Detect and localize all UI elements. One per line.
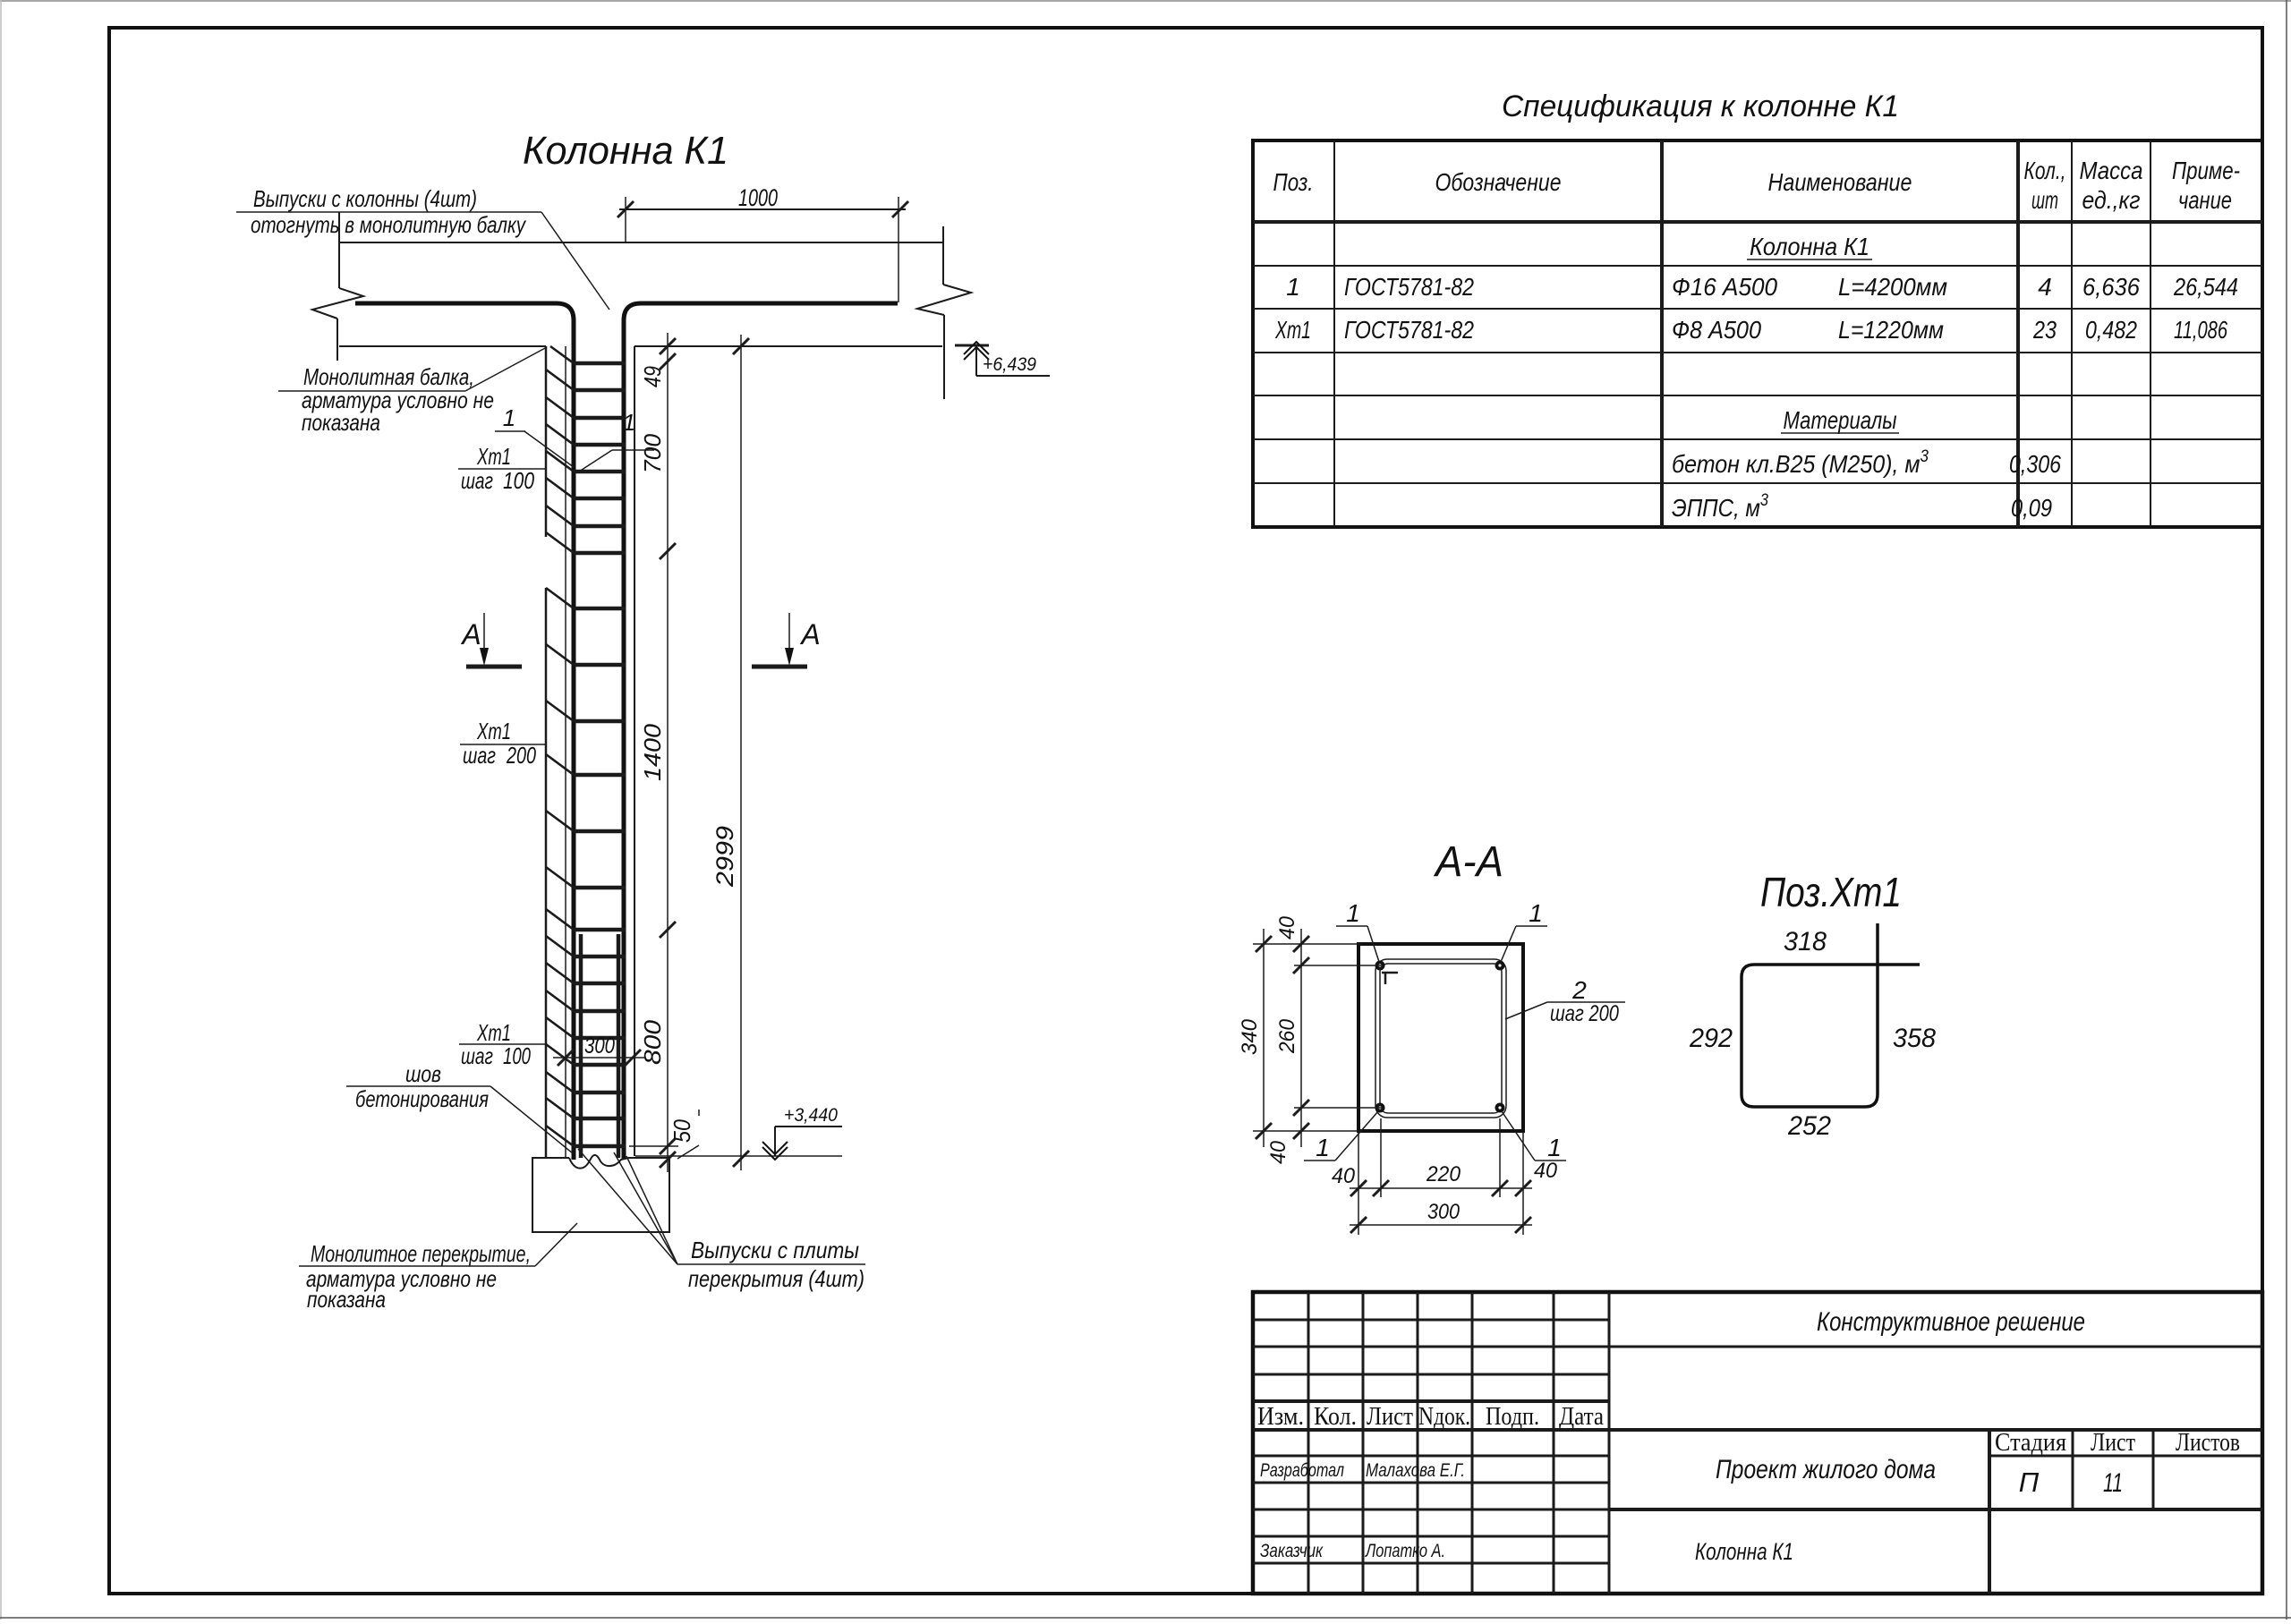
svg-text:шт: шт [2031,186,2058,214]
svg-text:бетон кл.В25 (М250), м3: бетон кл.В25 (М250), м3 [1672,447,1929,478]
spec row Хт1: Ф8 А500 [1274,316,2227,344]
section A-A column outline [1358,944,1523,1131]
svg-text:L=1220мм: L=1220мм [1838,316,1944,344]
svg-text:Материалы: Материалы [1784,406,1897,434]
beam rebar right (bent column outlet bar) [624,303,898,1160]
level mark +3,440 [635,1105,842,1160]
column left edge (hatch band edge) upper segment [545,346,548,537]
hatch strokes on column left band [546,346,574,1146]
svg-text:1400: 1400 [639,723,666,781]
svg-text:отогнуть в монолитную балку: отогнуть в монолитную балку [251,211,527,238]
svg-text:показана: показана [302,409,380,436]
svg-text:Стадия: Стадия [1995,1429,2066,1457]
svg-text:Масса: Масса [2080,157,2143,184]
svg-text:Лист: Лист [2091,1429,2135,1457]
svg-text:40: 40 [1332,1164,1356,1188]
section A-A position labels 1 [1304,899,1566,1161]
svg-text:Выпуски с колонны (4шт): Выпуски с колонны (4шт) [253,185,477,212]
beam bottom edge right segment [634,345,942,347]
svg-text:0,306: 0,306 [2009,450,2061,478]
svg-text:Колонна К1: Колонна К1 [1750,233,1869,260]
vertical dimension chain 49 700 1400 800 50 [660,333,676,1172]
section A-A stirrup hook [1382,973,1398,984]
svg-text:А-А: А-А [1433,838,1503,886]
svg-text:Монолитное перекрытие,: Монолитное перекрытие, [311,1240,531,1267]
section A-A stirrup (double line) [1375,959,1506,1118]
Поз.Хт1 stirrup shape [1742,923,1920,1107]
svg-text:292: 292 [1689,1024,1733,1053]
construction joint wavy line (шов бетонирования) [569,1155,628,1169]
svg-text:40: 40 [1275,915,1299,940]
svg-text:Подп.: Подп. [1486,1403,1539,1431]
svg-text:Хт1: Хт1 [1274,316,1311,344]
label: Выпуски с плиты перекрытия (4шт) [578,1149,865,1292]
svg-text:Приме-: Приме- [2172,157,2240,184]
svg-text:318: 318 [1784,927,1827,957]
svg-text:Листов: Листов [2176,1429,2240,1457]
svg-text:ГОСТ5781-82: ГОСТ5781-82 [1344,316,1474,344]
svg-text:358: 358 [1893,1024,1936,1053]
spec row: Материалы [1781,406,1899,434]
svg-text:252: 252 [1787,1111,1831,1141]
beam right break line [917,226,971,399]
beam rebar left (bent column outlet bar) [355,303,574,1160]
label: Монолитная балка, арматура условно не показана [278,347,547,436]
svg-text:Колонна К1: Колонна К1 [523,129,728,173]
svg-text:+6,439: +6,439 [983,354,1036,375]
svg-text:23: 23 [2032,316,2057,344]
label: position 1 (mid right) [579,409,654,472]
stirrups Хт1 шаг 100 (bottom zone) [574,930,626,1146]
svg-text:200: 200 [506,742,536,769]
spec row: бетон [1672,447,2061,478]
title block header: Изм Кол Лист Nдок Подп Дата [1257,1403,1605,1431]
section A-A left dims 40/260/40 and 340 [1238,915,1383,1164]
title block grid [1253,1292,2262,1594]
svg-text:Nдок.: Nдок. [1418,1403,1470,1431]
beam bottom edge left segment [339,345,546,347]
svg-text:бетонирования: бетонирования [355,1085,489,1112]
svg-text:Хт1: Хт1 [476,718,511,744]
slab outlet bars (выпуски с плиты) [579,934,583,1158]
level mark +6,439 [955,342,1050,376]
svg-text:показана: показана [307,1286,386,1313]
svg-text:Поз.: Поз. [1273,168,1314,196]
section A-A label 2 шаг 200 [1505,976,1625,1026]
svg-text:1: 1 [1316,1134,1330,1161]
svg-text:2: 2 [1571,976,1587,1004]
svg-text:Ф16 А500: Ф16 А500 [1672,273,1777,301]
stirrups Хт1 шаг 200 (middle zone) [574,608,626,888]
spec row: ЭППС [1672,491,2052,522]
column right edge [634,346,635,1156]
svg-text:50: 50 [669,1119,695,1143]
svg-text:Колонна К1: Колонна К1 [1695,1538,1793,1565]
svg-text:1: 1 [1547,1134,1562,1161]
label: Хт1 шаг 200 (middle) [460,718,545,769]
svg-text:чание: чание [2178,186,2232,214]
svg-text:Выпуски с плиты: Выпуски с плиты [691,1237,859,1263]
label: Выпуски с колонны (4шт) отогнуть в монолитную балку [236,185,609,310]
spec row 1: Ф16 А500 [1286,273,2238,301]
svg-text:L=4200мм: L=4200мм [1838,273,1947,301]
svg-text:А: А [460,618,481,650]
svg-text:1: 1 [1346,899,1360,927]
svg-text:Поз.Хт1: Поз.Хт1 [1760,869,1902,915]
column left edge (hatch band edge) lower segment [545,588,548,1158]
label: Монолитное перекрытие, арматура условно не показана [299,1223,577,1313]
svg-text:Хт1: Хт1 [476,443,511,470]
label: Хт1 шаг 100 (bottom) [459,1019,545,1069]
svg-text:Малахова Е.Г.: Малахова Е.Г. [1366,1460,1465,1481]
svg-text:6,636: 6,636 [2082,273,2140,301]
svg-text:40: 40 [1534,1159,1558,1183]
svg-text:Лист: Лист [1367,1403,1413,1431]
svg-text:Ф8 А500: Ф8 А500 [1672,316,1761,344]
title block: П 11 [2019,1467,2123,1498]
svg-text:2999: 2999 [711,826,738,888]
svg-text:1: 1 [623,409,635,436]
dimension 1000 (beam) [617,184,908,302]
svg-text:ед.,кг: ед.,кг [2082,186,2141,214]
svg-text:Разработал: Разработал [1260,1460,1344,1481]
svg-text:26,544: 26,544 [2173,273,2238,301]
svg-text:Кол.: Кол. [1314,1403,1357,1431]
slab (монолитное перекрытие) outline [532,1158,669,1232]
svg-text:Лопатко А.: Лопатко А. [1364,1541,1445,1561]
svg-text:шаг: шаг [461,467,493,494]
svg-text:340: 340 [1238,1018,1262,1055]
svg-text:1: 1 [1286,273,1300,301]
svg-text:700: 700 [639,433,666,473]
svg-text:Наименование: Наименование [1768,168,1912,196]
svg-text:Кол.,: Кол., [2024,157,2066,184]
dim text 50 with leader [669,1110,699,1159]
dimension 300 (outlet bars lap) [553,1033,646,1066]
svg-text:11,086: 11,086 [2174,316,2227,344]
svg-text:Изм.: Изм. [1257,1403,1304,1431]
svg-text:ЭППС, м3: ЭППС, м3 [1672,491,1768,522]
svg-text:ГОСТ5781-82: ГОСТ5781-82 [1344,273,1474,301]
svg-text:11: 11 [2103,1468,2123,1498]
svg-text:100: 100 [503,467,534,494]
svg-text:Конструктивное решение: Конструктивное решение [1817,1307,2085,1337]
extension line for 50 dim [629,1145,678,1147]
label: шов бетонирования [346,1060,573,1153]
svg-text:шаг: шаг [463,742,496,769]
svg-text:шов: шов [405,1060,441,1087]
spec header texts [1273,157,2241,214]
label: position 1 (upper) [495,404,574,467]
section A-A rebar dots [1375,961,1505,1113]
beam top edge [339,242,943,243]
svg-text:260: 260 [1275,1018,1299,1054]
svg-text:П: П [2019,1467,2040,1498]
stirrups Хт1 шаг 100 (top zone) [574,363,626,553]
svg-text:300: 300 [584,1033,615,1059]
svg-text:4: 4 [2038,273,2052,301]
section mark A (right) [752,613,821,667]
svg-text:Проект жилого дома: Проект жилого дома [1716,1455,1936,1484]
spec table grid [1253,140,2262,527]
svg-text:шаг: шаг [461,1042,493,1069]
svg-text:220: 220 [1426,1162,1461,1186]
svg-text:1: 1 [1529,899,1543,927]
svg-text:1: 1 [503,404,515,431]
svg-text:А: А [799,618,820,650]
svg-text:100: 100 [503,1042,531,1069]
svg-text:Заказчик: Заказчик [1260,1541,1324,1561]
svg-text:0,482: 0,482 [2085,316,2137,344]
title block: Заказчик Лопатко А. [1260,1541,1445,1561]
svg-text:+3,440: +3,440 [784,1105,838,1126]
spec row: Колонна К1 [1747,233,1872,260]
svg-text:шаг 200: шаг 200 [1550,1001,1619,1026]
svg-text:Дата: Дата [1559,1403,1605,1431]
svg-text:40: 40 [1266,1140,1290,1164]
dimension 2999 (column height) [711,335,749,1170]
svg-text:49: 49 [639,366,666,387]
section A-A bottom dims 40/220/40 and 300 [1332,1118,1558,1235]
column inner thin line [565,346,566,1158]
label: Хт1 шаг 100 (top) [458,443,545,494]
svg-text:300: 300 [1427,1200,1461,1224]
svg-text:Спецификация к колонне К1: Спецификация к колонне К1 [1502,89,1899,123]
svg-text:0,09: 0,09 [2011,494,2052,522]
svg-text:1000: 1000 [738,184,778,211]
svg-text:Обозначение: Обозначение [1435,168,1562,196]
title block: Разработал Малахова Е.Г. [1260,1460,1465,1481]
title block: Стадия Лист Листов [1995,1429,2240,1457]
svg-text:перекрытия (4шт): перекрытия (4шт) [688,1265,864,1292]
section mark A (left) [460,613,522,667]
beam left break line [312,212,363,361]
